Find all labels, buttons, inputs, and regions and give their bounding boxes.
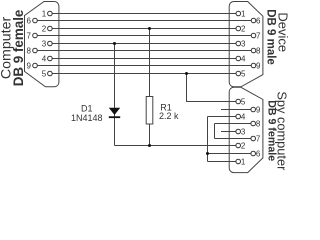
svg-text:4: 4 [241,112,246,121]
computer pin 8 circle [33,48,38,53]
computer pin 4 circle [48,56,53,61]
junction dot R1 rail [148,144,151,147]
wire pin5 GND computer-device [52,73,237,75]
junction dot spy pin6 loop [206,152,209,155]
connector Computer DB9 female outline [25,2,59,87]
svg-text:DB 9 female: DB 9 female [11,10,26,87]
spy pin 8 circle [251,121,256,126]
wire loop pins 8-7 vertical [214,124,216,139]
resistor R1 body [146,97,153,125]
spy pin 2 circle [236,143,241,148]
svg-text:5: 5 [42,69,47,78]
wire spy pin7 [215,138,252,140]
svg-text:8: 8 [256,119,261,128]
svg-text:9: 9 [256,105,261,114]
wire spy pin6 [208,153,252,155]
connector Spy computer DB9 female outline [229,87,263,172]
spy pin 7 circle [251,136,256,141]
svg-text:5: 5 [241,69,246,78]
svg-text:2: 2 [241,24,246,33]
svg-text:1N4148: 1N4148 [71,113,103,123]
svg-text:3: 3 [241,127,246,136]
svg-text:9: 9 [27,61,32,70]
svg-text:7: 7 [256,31,261,40]
device pin 7 circle [251,33,256,38]
svg-text:6: 6 [256,16,261,25]
wire pin6 computer-device [37,20,252,22]
svg-text:1: 1 [42,9,47,18]
device pin 3 circle [236,41,241,46]
computer pin 3 circle [48,41,53,46]
wire pin1 computer-device [52,13,237,15]
svg-text:DB 9 female: DB 9 female [265,100,277,161]
spy pin 1 circle [236,159,241,164]
device pin 1 circle [236,11,241,16]
computer pin 2 circle [48,26,53,31]
device pin 5 circle [236,71,241,76]
junction dot GND tap [185,72,188,75]
svg-text:3: 3 [42,39,47,48]
spy pin 9 circle [251,107,256,112]
device pin 2 circle [236,26,241,31]
wire pin3 computer-device [52,43,237,45]
computer pin 9 circle [33,63,38,68]
svg-text:3: 3 [241,39,246,48]
spy pin 5 circle [236,99,241,104]
wire spy pin8 [215,123,252,125]
computer pin 1 circle [48,11,53,16]
svg-text:1: 1 [241,157,246,166]
junction dot R1 tap pin2 row [148,27,151,30]
spy pin 3 circle [236,129,241,134]
wire spy pin1 [208,161,237,163]
wire spy pin4 [208,116,237,118]
svg-text:4: 4 [241,54,246,63]
svg-text:D1: D1 [81,103,93,113]
wire pin2 computer-device [52,28,237,30]
device pin 8 circle [251,48,256,53]
wire GND tap to spy pin5 [187,74,237,102]
device pin 9 circle [251,63,256,68]
svg-text:8: 8 [256,46,261,55]
svg-text:7: 7 [27,31,32,40]
svg-text:2: 2 [241,141,246,150]
device pin 6 circle [251,18,256,23]
svg-text:9: 9 [256,61,261,70]
svg-text:2: 2 [42,24,47,33]
connector Device DB9 male outline [229,2,263,87]
computer pin 7 circle [33,33,38,38]
wire pin4 computer-device [52,58,237,60]
svg-text:8: 8 [27,46,32,55]
svg-text:4: 4 [42,54,47,63]
junction dot D1 tap pin3 row [113,42,116,45]
computer pin 5 circle [48,71,53,76]
svg-text:6: 6 [27,16,32,25]
spy pin 4 circle [236,114,241,119]
svg-text:7: 7 [256,134,261,143]
spy pin 6 circle [251,151,256,156]
svg-text:2.2 k: 2.2 k [159,111,179,121]
svg-text:6: 6 [256,149,261,158]
wire pin8 computer-device [37,50,252,52]
computer pin 6 circle [33,18,38,23]
wire D1 tap vertical from pin3 row [114,44,116,146]
svg-text:1: 1 [241,9,246,18]
wire loop pins 4-6-1 vertical [207,117,209,162]
wire rail to spy pin2 [115,145,237,147]
svg-text:5: 5 [241,97,246,106]
device pin 4 circle [236,56,241,61]
diode D1 cathode bar [109,116,120,118]
wire spy pin9 stub [221,109,251,111]
wire R1 tap vertical from pin2 row [149,29,151,146]
diode D1 symbol (anode triangle) [109,108,120,115]
wire spy pin3 stub [221,131,236,133]
wire pin9 computer-device [37,65,252,67]
svg-text:DB 9 male: DB 9 male [265,9,277,65]
wire pin7 computer-device [37,35,252,37]
